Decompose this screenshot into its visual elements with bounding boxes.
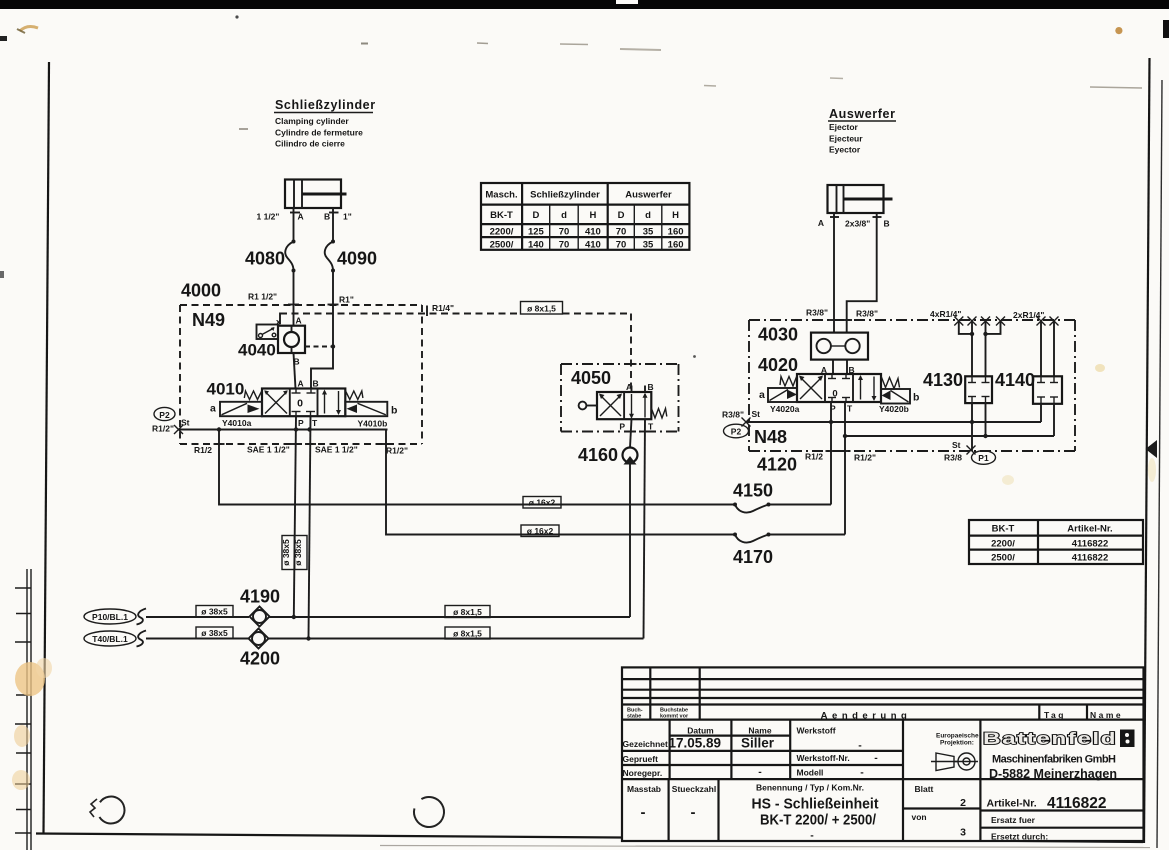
svg-text:Maschinenfabriken GmbH: Maschinenfabriken GmbH (992, 754, 1116, 766)
svg-text:4020: 4020 (758, 355, 798, 375)
svg-text:-: - (858, 740, 862, 752)
svg-text:T40/BL.1: T40/BL.1 (92, 634, 128, 644)
svg-text:B: B (648, 382, 654, 392)
svg-text:H: H (672, 210, 679, 221)
svg-text:Battenfeld: Battenfeld (983, 730, 1117, 748)
svg-text:4160: 4160 (578, 445, 618, 465)
svg-text:R3/8": R3/8" (722, 410, 744, 420)
svg-text:35: 35 (643, 227, 654, 238)
svg-text:4030: 4030 (758, 325, 798, 345)
svg-text:Noregepr.: Noregepr. (623, 768, 663, 778)
svg-text:2500/: 2500/ (490, 239, 514, 250)
svg-text:4040: 4040 (238, 341, 276, 360)
svg-text:Auswerfer: Auswerfer (829, 107, 896, 121)
svg-text:4116822: 4116822 (1047, 795, 1107, 812)
svg-text:Ejecteur: Ejecteur (829, 134, 863, 144)
svg-text:d: d (645, 210, 651, 221)
svg-text:4090: 4090 (337, 249, 377, 269)
svg-text:T: T (648, 422, 654, 432)
svg-text:2xR1/4": 2xR1/4" (1013, 310, 1044, 320)
svg-text:von: von (912, 812, 927, 822)
svg-text:BK-T 2200/ + 2500/: BK-T 2200/ + 2500/ (760, 812, 877, 829)
svg-text:2200/: 2200/ (991, 539, 1015, 550)
svg-text:R3/8": R3/8" (806, 308, 828, 318)
svg-text:Masstab: Masstab (627, 784, 661, 794)
svg-text:2200/: 2200/ (490, 227, 514, 238)
svg-text:R3/8": R3/8" (856, 309, 878, 319)
svg-text:SAE 1 1/2": SAE 1 1/2" (247, 445, 290, 455)
svg-text:70: 70 (616, 239, 627, 250)
svg-text:Gezeichnet: Gezeichnet (623, 739, 669, 749)
svg-text:4116822: 4116822 (1072, 553, 1108, 564)
svg-text:ø 16x2: ø 16x2 (529, 498, 556, 508)
svg-text:Schließzylinder: Schließzylinder (530, 190, 600, 201)
svg-text:-: - (641, 804, 646, 821)
svg-text:ø 8x1,5: ø 8x1,5 (453, 629, 482, 639)
svg-text:Cylindre de fermeture: Cylindre de fermeture (275, 128, 363, 138)
svg-text:2500/: 2500/ (991, 553, 1015, 564)
svg-text:4120: 4120 (757, 455, 797, 475)
svg-text:D-5882 Meinerzhagen: D-5882 Meinerzhagen (989, 767, 1117, 781)
svg-text:70: 70 (559, 227, 570, 238)
svg-text:-: - (860, 767, 864, 779)
svg-text:P2: P2 (731, 426, 742, 436)
svg-text:4170: 4170 (733, 547, 773, 567)
svg-text:Werkstoff: Werkstoff (797, 726, 836, 736)
svg-text:A: A (296, 316, 302, 326)
svg-text:Eyector: Eyector (829, 145, 861, 155)
svg-text:410: 410 (585, 239, 601, 250)
svg-text:2x3/8": 2x3/8" (845, 219, 870, 229)
svg-text:ø 8x1,5: ø 8x1,5 (453, 607, 482, 617)
svg-text:4140: 4140 (995, 370, 1035, 390)
svg-text:N48: N48 (754, 427, 787, 447)
svg-text:A: A (626, 382, 632, 392)
svg-text:1": 1" (343, 212, 352, 222)
svg-text:ø 38x5: ø 38x5 (201, 628, 228, 638)
svg-text:4050: 4050 (571, 368, 611, 388)
svg-text:Geprueft: Geprueft (623, 754, 659, 764)
svg-text:B: B (324, 212, 330, 222)
svg-text:140: 140 (528, 239, 544, 250)
svg-text:4000: 4000 (181, 281, 221, 301)
svg-text:R1": R1" (339, 295, 354, 305)
svg-text:4080: 4080 (245, 249, 285, 269)
svg-text:ø 38x5: ø 38x5 (293, 539, 303, 566)
svg-text:N49: N49 (192, 310, 225, 330)
svg-text:Name: Name (748, 726, 771, 736)
svg-text:Datum: Datum (687, 726, 714, 736)
svg-text:70: 70 (616, 227, 627, 238)
svg-text:D: D (618, 210, 625, 221)
svg-text:Siller: Siller (741, 736, 775, 751)
svg-text:-: - (758, 766, 762, 778)
svg-text:Masch.: Masch. (485, 190, 517, 201)
svg-text:ø 38x5: ø 38x5 (201, 607, 228, 617)
svg-text:Europaeische: Europaeische (936, 733, 979, 740)
svg-text:T: T (847, 404, 853, 414)
svg-text:4116822: 4116822 (1072, 539, 1108, 550)
svg-text:4xR1/4": 4xR1/4" (930, 309, 961, 319)
svg-text:A: A (298, 379, 304, 389)
svg-text:1 1/2": 1 1/2" (257, 212, 280, 222)
svg-text:Y4020a: Y4020a (770, 404, 800, 414)
svg-text:R1/2": R1/2" (386, 446, 408, 456)
svg-text:SAE 1 1/2": SAE 1 1/2" (315, 445, 358, 455)
svg-text:35: 35 (643, 239, 654, 250)
svg-text:kommt vor: kommt vor (660, 714, 689, 720)
svg-text:R1/2: R1/2 (194, 445, 212, 455)
svg-text:D: D (532, 210, 539, 221)
svg-text:St: St (752, 409, 761, 419)
svg-text:P2: P2 (159, 410, 170, 420)
svg-text:4130: 4130 (923, 370, 963, 390)
svg-text:BK-T: BK-T (992, 524, 1015, 535)
svg-text:Schließzylinder: Schließzylinder (275, 98, 376, 112)
svg-text:Ersetzt durch:: Ersetzt durch: (991, 832, 1048, 842)
svg-text:ø 38x5: ø 38x5 (281, 539, 291, 566)
svg-text:70: 70 (559, 239, 570, 250)
svg-text:St: St (952, 440, 961, 450)
svg-text:160: 160 (668, 227, 684, 238)
svg-text:4190: 4190 (240, 587, 280, 607)
svg-text:BK-T: BK-T (490, 210, 513, 221)
svg-text:4200: 4200 (240, 649, 280, 669)
svg-text:a: a (210, 403, 216, 415)
svg-text:Name: Name (1090, 710, 1123, 720)
svg-text:4010: 4010 (207, 380, 245, 399)
svg-text:P: P (619, 422, 625, 432)
svg-text:-: - (810, 830, 814, 842)
svg-text:HS - Schließeinheit: HS - Schließeinheit (752, 796, 879, 813)
svg-text:b: b (913, 392, 919, 404)
svg-text:R1/2: R1/2 (805, 452, 823, 462)
svg-text:Y4010a: Y4010a (222, 418, 252, 428)
svg-text:Ersatz fuer: Ersatz fuer (991, 815, 1036, 825)
svg-text:Tag: Tag (1044, 710, 1066, 720)
svg-text:17.05.89: 17.05.89 (669, 736, 722, 751)
svg-text:P: P (298, 418, 304, 428)
svg-text:410: 410 (585, 227, 601, 238)
svg-text:Ejector: Ejector (829, 122, 859, 132)
svg-text:B: B (884, 219, 890, 229)
svg-text:Y4020b: Y4020b (879, 404, 909, 414)
svg-text:stabe: stabe (627, 714, 641, 720)
svg-text:A: A (818, 218, 824, 228)
svg-text:-: - (874, 752, 878, 764)
svg-text:B: B (313, 379, 319, 389)
svg-text:Auswerfer: Auswerfer (625, 190, 672, 201)
svg-text:Benennung / Typ / Kom.Nr.: Benennung / Typ / Kom.Nr. (756, 783, 864, 793)
svg-text:b: b (391, 405, 397, 417)
svg-text:Projektion:: Projektion: (940, 740, 974, 747)
svg-text:H: H (589, 210, 596, 221)
svg-text:Modell: Modell (797, 768, 824, 778)
svg-text:-: - (691, 804, 696, 821)
svg-text:d: d (561, 210, 567, 221)
svg-text:160: 160 (668, 239, 684, 250)
svg-text:Y4010b: Y4010b (358, 419, 388, 429)
svg-text:R1 1/2": R1 1/2" (248, 292, 277, 302)
svg-text:a: a (759, 389, 765, 401)
svg-text:0: 0 (297, 398, 303, 410)
svg-text:3: 3 (960, 827, 966, 839)
svg-text:2: 2 (960, 797, 966, 809)
svg-text:Clamping cylinder: Clamping cylinder (275, 116, 349, 126)
svg-text:4150: 4150 (733, 481, 773, 501)
svg-text:A: A (298, 212, 304, 222)
svg-text:125: 125 (528, 227, 545, 238)
svg-text:Werkstoff-Nr.: Werkstoff-Nr. (797, 753, 850, 763)
svg-text:ø 8x1,5: ø 8x1,5 (527, 303, 556, 313)
svg-text:Stueckzahl: Stueckzahl (672, 784, 716, 794)
svg-text:R3/8: R3/8 (944, 453, 962, 463)
svg-text:Artikel-Nr.: Artikel-Nr. (1067, 524, 1112, 535)
svg-text:R1/2": R1/2" (854, 453, 876, 463)
svg-text:Cilindro de cierre: Cilindro de cierre (275, 139, 345, 149)
svg-text:P10/BL.1: P10/BL.1 (92, 612, 128, 622)
svg-text:R1/4": R1/4" (432, 303, 454, 313)
svg-text:P1: P1 (978, 453, 989, 463)
svg-text:Artikel-Nr.: Artikel-Nr. (987, 798, 1037, 810)
svg-text:ø 16x2: ø 16x2 (527, 526, 554, 536)
svg-text:Blatt: Blatt (915, 784, 934, 794)
svg-text:R1/2": R1/2" (152, 424, 174, 434)
svg-text:Aenderung: Aenderung (821, 711, 912, 722)
svg-text:T: T (312, 418, 318, 428)
